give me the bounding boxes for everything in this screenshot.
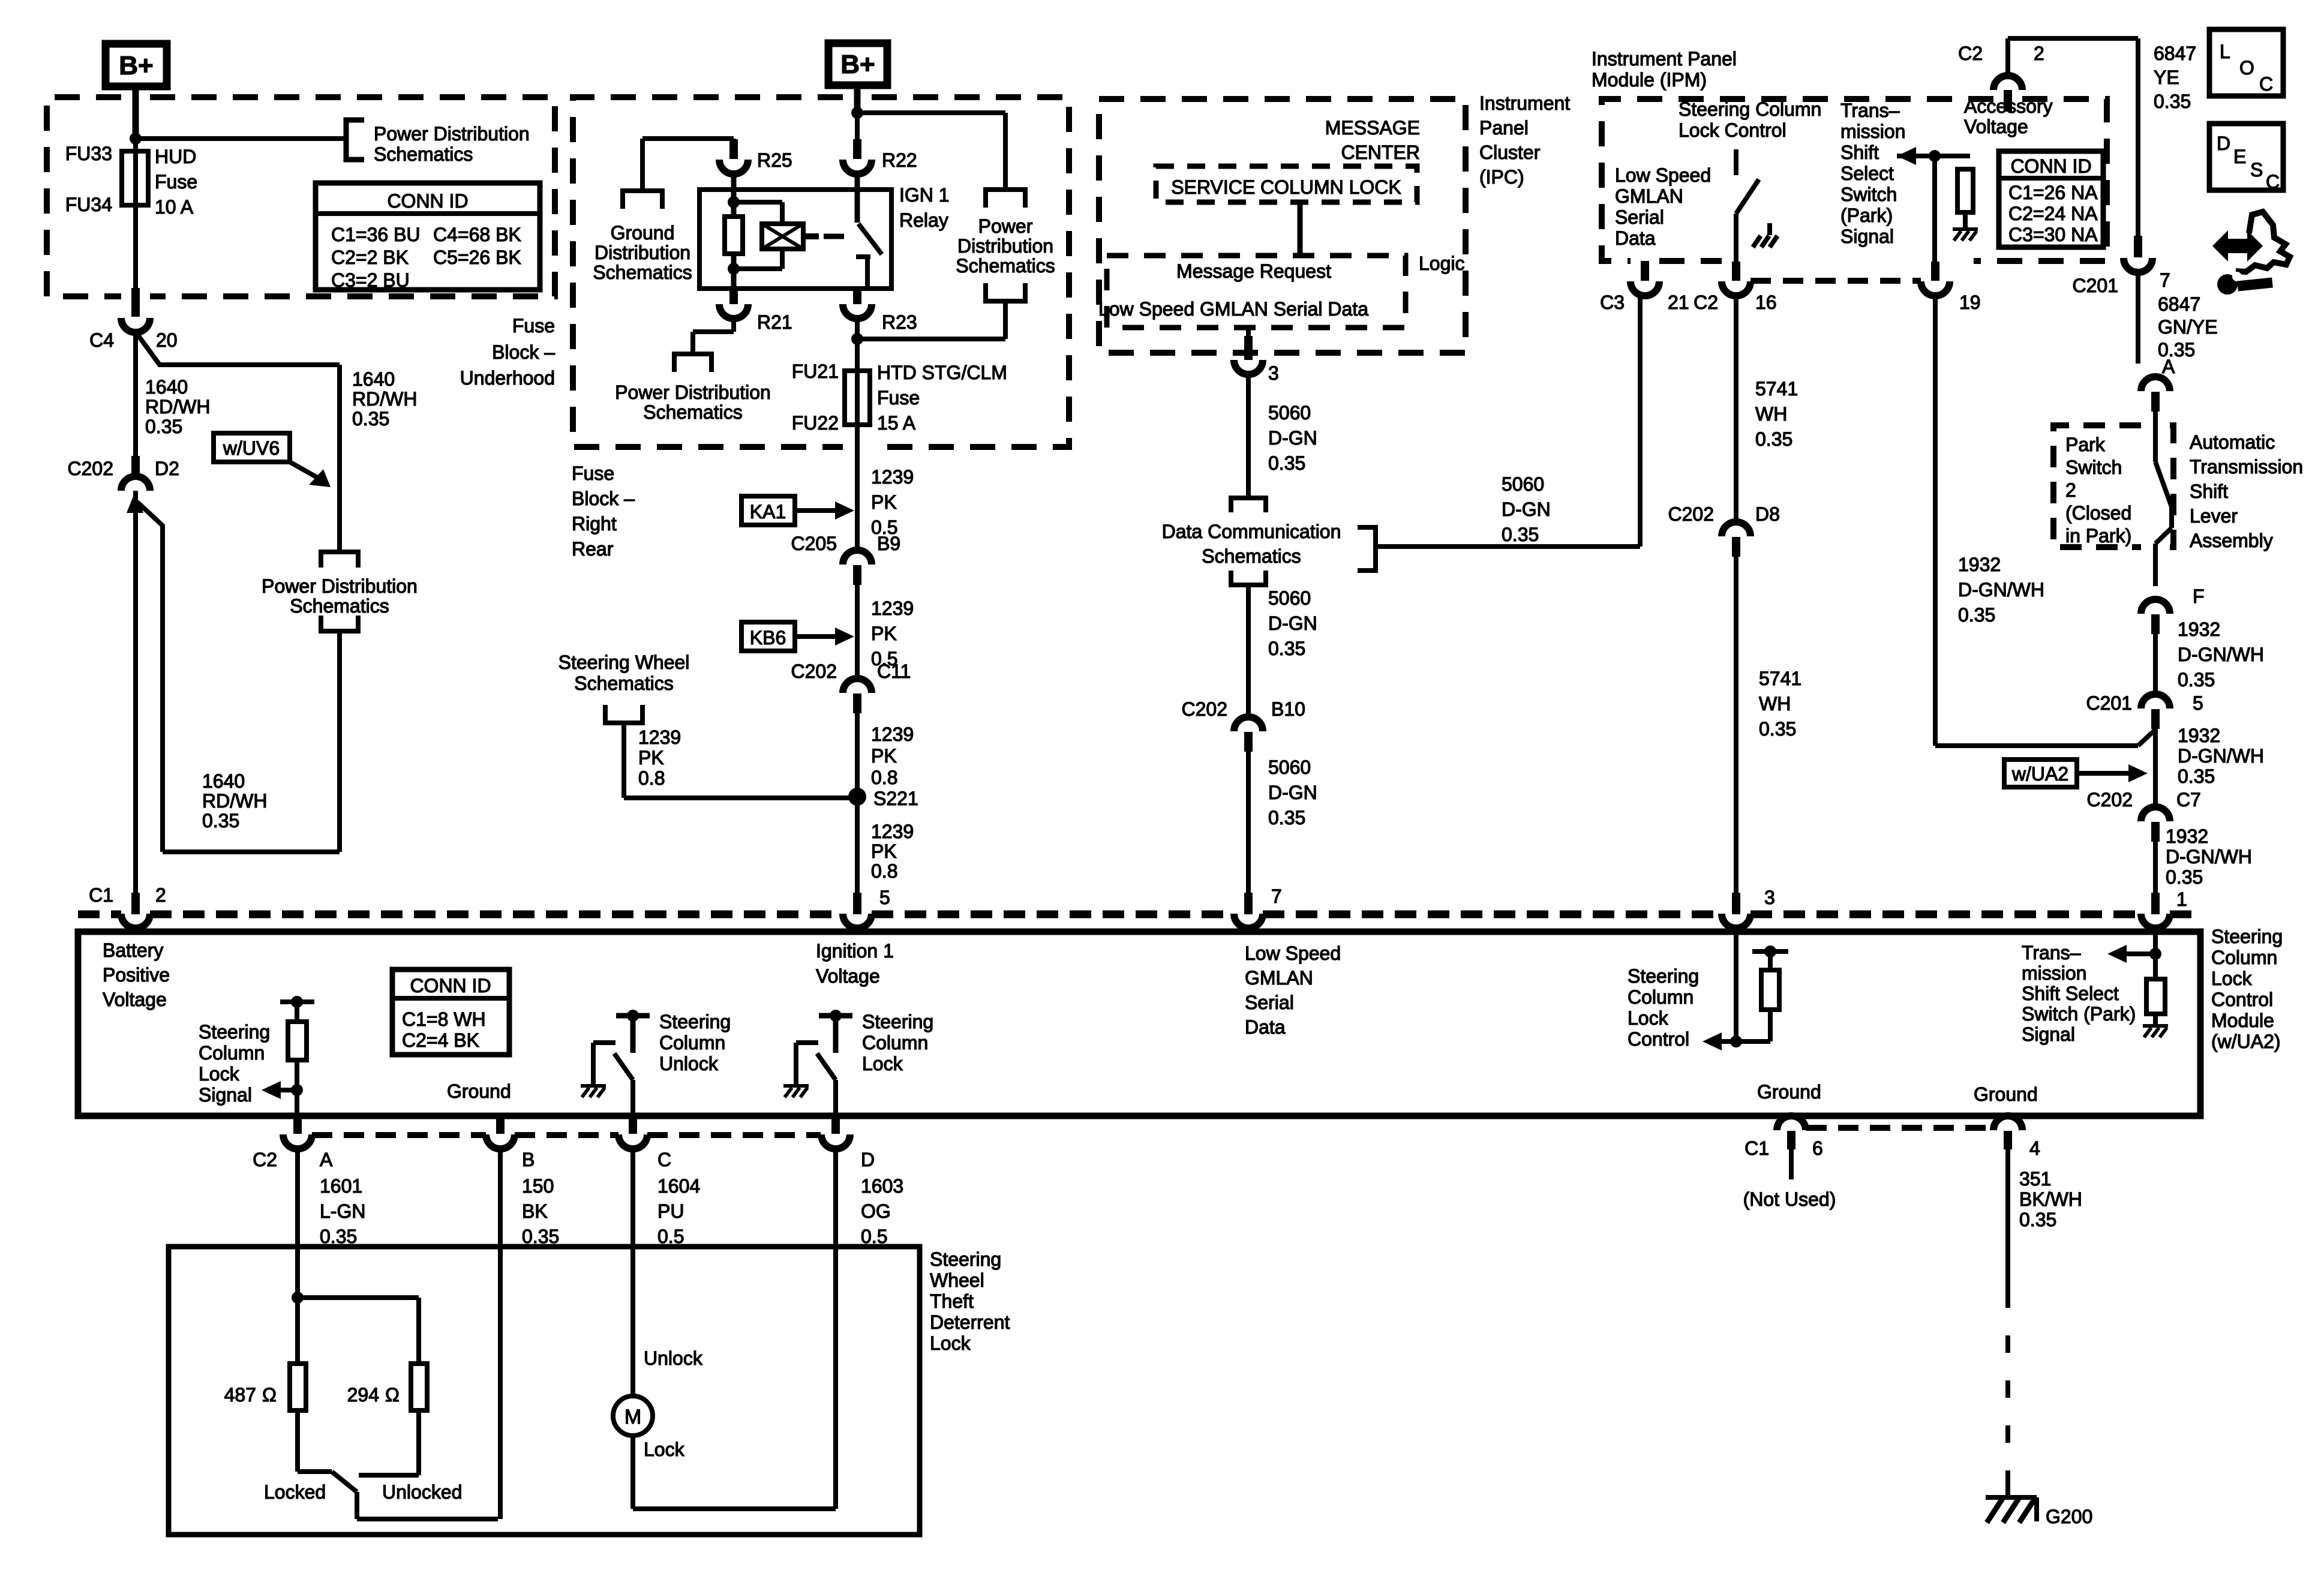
svg-text:Shift Select: Shift Select	[2022, 983, 2119, 1004]
svg-text:Underhood: Underhood	[460, 367, 555, 389]
svg-text:Power Distribution: Power Distribution	[262, 575, 418, 597]
svg-text:Ground: Ground	[1974, 1083, 2038, 1105]
svg-text:5060: 5060	[1268, 402, 1311, 424]
svg-text:Ground: Ground	[611, 222, 675, 244]
svg-text:C1=26 NA: C1=26 NA	[2008, 182, 2098, 203]
svg-text:Low Speed GMLAN Serial Data: Low Speed GMLAN Serial Data	[1098, 298, 1368, 320]
svg-text:L-GN: L-GN	[320, 1200, 365, 1222]
svg-text:Column: Column	[199, 1042, 265, 1064]
svg-text:Right: Right	[572, 513, 617, 535]
svg-text:Steering: Steering	[2211, 926, 2283, 947]
svg-text:C7: C7	[2176, 789, 2201, 810]
svg-text:C4=68 BK: C4=68 BK	[433, 224, 521, 245]
svg-text:Lock: Lock	[199, 1063, 240, 1085]
svg-text:CONN ID: CONN ID	[2010, 155, 2091, 177]
svg-text:Fuse: Fuse	[512, 315, 555, 337]
svg-text:Block –: Block –	[492, 341, 555, 363]
svg-text:2: 2	[2034, 43, 2044, 64]
svg-text:Message Request: Message Request	[1176, 260, 1331, 282]
svg-text:21: 21	[1668, 292, 1689, 313]
svg-text:Low Speed: Low Speed	[1615, 164, 1711, 186]
svg-text:Lock: Lock	[1628, 1007, 1669, 1029]
svg-text:1239: 1239	[871, 724, 914, 745]
svg-text:Logic: Logic	[1419, 253, 1465, 274]
svg-text:0.35: 0.35	[202, 810, 239, 831]
svg-text:Relay: Relay	[899, 209, 948, 231]
svg-text:Data Communication: Data Communication	[1162, 521, 1341, 542]
svg-text:(Not Used): (Not Used)	[1743, 1188, 1836, 1210]
svg-text:R23: R23	[882, 311, 917, 333]
svg-text:C2=2 BK: C2=2 BK	[331, 247, 409, 268]
svg-text:B+: B+	[119, 51, 153, 80]
svg-text:Select: Select	[1840, 163, 1894, 184]
svg-text:SERVICE COLUMN LOCK: SERVICE COLUMN LOCK	[1171, 176, 1401, 198]
svg-text:Deterrent: Deterrent	[930, 1311, 1010, 1333]
svg-text:Data: Data	[1245, 1016, 1286, 1038]
svg-text:Low Speed: Low Speed	[1245, 942, 1341, 964]
svg-text:CENTER: CENTER	[1341, 142, 1420, 163]
svg-text:E: E	[2233, 146, 2246, 167]
svg-text:Theft: Theft	[930, 1290, 974, 1312]
svg-text:D8: D8	[1755, 503, 1780, 525]
svg-text:Instrument Panel: Instrument Panel	[1592, 48, 1737, 70]
svg-text:GMLAN: GMLAN	[1615, 185, 1683, 207]
svg-text:6847: 6847	[2158, 293, 2200, 315]
svg-text:Steering Column: Steering Column	[1679, 98, 1821, 120]
svg-text:S221: S221	[873, 788, 918, 809]
svg-text:C202: C202	[1668, 503, 1715, 525]
svg-text:R25: R25	[757, 149, 792, 171]
svg-text:C: C	[2259, 73, 2273, 95]
svg-text:Switch: Switch	[2065, 457, 2122, 478]
svg-text:Transmission: Transmission	[2190, 456, 2303, 478]
svg-text:7: 7	[1271, 885, 1282, 907]
svg-text:Schematics: Schematics	[956, 255, 1055, 277]
svg-text:PU: PU	[657, 1200, 684, 1222]
svg-text:1604: 1604	[657, 1175, 700, 1197]
svg-text:Signal: Signal	[2022, 1023, 2075, 1045]
svg-text:0.35: 0.35	[145, 416, 182, 437]
svg-text:Assembly: Assembly	[2190, 530, 2273, 551]
svg-text:Schematics: Schematics	[574, 673, 673, 694]
svg-text:C202: C202	[2087, 789, 2133, 810]
svg-text:WH: WH	[1755, 403, 1787, 425]
svg-text:C2: C2	[253, 1149, 277, 1170]
svg-text:5060: 5060	[1502, 473, 1544, 495]
svg-text:Control: Control	[1628, 1028, 1689, 1050]
svg-text:Data: Data	[1615, 227, 1656, 249]
svg-text:1603: 1603	[861, 1175, 903, 1197]
svg-text:Trans–: Trans–	[1840, 100, 1900, 121]
svg-text:C2=4 BK: C2=4 BK	[402, 1029, 479, 1051]
svg-text:Ground: Ground	[447, 1080, 511, 1102]
svg-text:(Closed: (Closed	[2065, 502, 2131, 524]
svg-text:B9: B9	[877, 533, 900, 554]
svg-text:Module: Module	[2211, 1010, 2274, 1031]
svg-text:C201: C201	[2086, 692, 2133, 714]
svg-text:Instrument: Instrument	[1479, 92, 1570, 114]
svg-text:Voltage: Voltage	[103, 989, 167, 1010]
svg-text:mission: mission	[2022, 962, 2086, 984]
svg-text:1239: 1239	[871, 466, 914, 488]
svg-text:1640: 1640	[202, 770, 245, 792]
svg-text:PK: PK	[871, 745, 897, 767]
svg-text:0.35: 0.35	[1268, 452, 1305, 474]
svg-text:KB6: KB6	[750, 627, 786, 649]
svg-text:Ω: Ω	[385, 1384, 400, 1406]
svg-text:Schematics: Schematics	[1202, 545, 1301, 567]
svg-text:0.35: 0.35	[2166, 866, 2203, 888]
svg-text:Lock: Lock	[2211, 968, 2253, 989]
svg-text:D-GN: D-GN	[1502, 499, 1551, 520]
svg-text:C202: C202	[68, 458, 114, 479]
svg-text:Power Distribution: Power Distribution	[615, 382, 771, 403]
svg-text:C1=8 WH: C1=8 WH	[402, 1008, 486, 1030]
svg-text:PK: PK	[871, 623, 897, 644]
svg-text:FU34: FU34	[65, 194, 112, 215]
svg-text:Shift: Shift	[1840, 142, 1879, 163]
svg-text:Panel: Panel	[1479, 117, 1529, 139]
svg-text:Steering Wheel: Steering Wheel	[559, 652, 690, 673]
svg-text:PK: PK	[871, 840, 897, 862]
svg-text:C202: C202	[1182, 698, 1228, 720]
svg-text:RD/WH: RD/WH	[352, 388, 417, 410]
svg-text:Control: Control	[2211, 989, 2273, 1010]
svg-text:D: D	[861, 1149, 875, 1170]
svg-text:Steering: Steering	[1628, 965, 1699, 987]
svg-text:5: 5	[2193, 692, 2203, 714]
svg-text:Trans–: Trans–	[2022, 942, 2081, 963]
svg-text:D-GN/WH: D-GN/WH	[2166, 846, 2252, 867]
svg-text:0.8: 0.8	[871, 860, 897, 882]
svg-text:MESSAGE: MESSAGE	[1325, 117, 1420, 139]
svg-text:1932: 1932	[2178, 619, 2220, 640]
svg-text:C2: C2	[1694, 292, 1718, 313]
svg-text:Ignition 1: Ignition 1	[816, 940, 894, 962]
svg-text:Switch: Switch	[1840, 184, 1897, 205]
svg-text:FU33: FU33	[65, 143, 112, 164]
svg-text:B10: B10	[1271, 698, 1305, 720]
svg-text:B+: B+	[840, 50, 875, 79]
svg-text:C3=30 NA: C3=30 NA	[2008, 224, 2098, 245]
svg-text:C4: C4	[89, 329, 114, 351]
svg-text:0.35: 0.35	[1502, 524, 1539, 545]
svg-text:IGN 1: IGN 1	[899, 184, 950, 206]
svg-text:D-GN: D-GN	[1268, 782, 1317, 803]
svg-text:C1=36 BU: C1=36 BU	[331, 224, 421, 245]
svg-text:Steering: Steering	[199, 1021, 270, 1043]
svg-text:Wheel: Wheel	[930, 1269, 984, 1291]
svg-text:C: C	[2266, 171, 2280, 193]
svg-text:150: 150	[522, 1175, 554, 1197]
svg-text:R22: R22	[882, 149, 917, 171]
svg-text:Fuse: Fuse	[572, 463, 614, 484]
svg-text:Lever: Lever	[2190, 505, 2238, 527]
svg-text:6: 6	[1812, 1137, 1823, 1159]
svg-text:5741: 5741	[1759, 668, 1801, 689]
svg-text:C2: C2	[1958, 43, 1983, 64]
svg-text:YE: YE	[2154, 67, 2179, 88]
svg-text:0.35: 0.35	[1759, 718, 1796, 740]
svg-text:Column: Column	[862, 1032, 928, 1053]
svg-text:WH: WH	[1759, 693, 1791, 715]
svg-text:(IPC): (IPC)	[1479, 166, 1524, 188]
svg-text:5060: 5060	[1268, 587, 1311, 609]
svg-text:4: 4	[2029, 1137, 2040, 1159]
svg-text:0.8: 0.8	[638, 767, 665, 789]
svg-text:HTD STG/CLM: HTD STG/CLM	[877, 362, 1007, 383]
svg-text:D-GN/WH: D-GN/WH	[2178, 745, 2264, 767]
svg-text:Park: Park	[2065, 434, 2106, 455]
svg-text:in Park): in Park)	[2065, 525, 2131, 547]
svg-text:Voltage: Voltage	[816, 965, 880, 987]
svg-text:Voltage: Voltage	[1964, 116, 2028, 137]
svg-text:CONN ID: CONN ID	[387, 190, 468, 212]
svg-text:0.35: 0.35	[2154, 91, 2191, 112]
svg-text:Unlock: Unlock	[644, 1347, 703, 1369]
svg-text:C202: C202	[791, 661, 837, 682]
svg-text:Ω: Ω	[262, 1384, 277, 1406]
svg-text:487: 487	[224, 1384, 256, 1406]
svg-text:Power Distribution: Power Distribution	[374, 123, 530, 145]
svg-text:C: C	[657, 1149, 671, 1170]
svg-text:1932: 1932	[2166, 825, 2208, 847]
svg-text:19: 19	[1959, 292, 1981, 313]
svg-text:Schematics: Schematics	[643, 401, 742, 423]
svg-text:C205: C205	[791, 533, 837, 554]
svg-text:Serial: Serial	[1615, 206, 1664, 228]
svg-text:0.35: 0.35	[2178, 766, 2215, 787]
svg-text:0.35: 0.35	[2019, 1209, 2056, 1230]
svg-text:KA1: KA1	[750, 501, 786, 523]
svg-text:Cluster: Cluster	[1479, 142, 1541, 163]
svg-text:D-GN/WH: D-GN/WH	[2178, 644, 2264, 665]
svg-text:0.35: 0.35	[1268, 638, 1305, 659]
svg-text:294: 294	[347, 1384, 379, 1406]
svg-text:C1: C1	[89, 884, 113, 906]
svg-text:Distribution: Distribution	[594, 242, 690, 263]
svg-text:0.35: 0.35	[352, 408, 389, 430]
svg-text:1239: 1239	[871, 821, 914, 842]
svg-text:Schematics: Schematics	[290, 595, 389, 617]
svg-text:Schematics: Schematics	[374, 143, 473, 165]
svg-text:1239: 1239	[638, 727, 681, 748]
svg-text:D2: D2	[155, 458, 179, 479]
svg-text:Unlock: Unlock	[659, 1053, 719, 1074]
svg-text:Signal: Signal	[199, 1084, 252, 1106]
svg-text:M: M	[624, 1406, 641, 1428]
svg-text:2: 2	[155, 884, 166, 906]
svg-text:1932: 1932	[2178, 725, 2220, 746]
svg-text:Steering: Steering	[930, 1248, 1001, 1270]
svg-text:CONN ID: CONN ID	[410, 975, 491, 996]
svg-text:F: F	[2193, 586, 2205, 607]
svg-text:B: B	[522, 1149, 535, 1170]
svg-text:C3: C3	[1600, 292, 1625, 313]
svg-text:Automatic: Automatic	[2190, 431, 2275, 453]
svg-text:1601: 1601	[320, 1175, 362, 1197]
svg-text:C11: C11	[877, 661, 911, 682]
svg-text:C2=24 NA: C2=24 NA	[2008, 203, 2098, 224]
svg-text:GMLAN: GMLAN	[1245, 967, 1313, 989]
svg-text:Column: Column	[659, 1032, 725, 1053]
svg-text:A: A	[320, 1149, 333, 1170]
svg-text:Fuse: Fuse	[155, 171, 197, 193]
svg-text:Ground: Ground	[1757, 1081, 1821, 1103]
svg-text:16: 16	[1755, 292, 1777, 313]
svg-text:L: L	[2220, 41, 2230, 62]
svg-text:FU21: FU21	[792, 361, 839, 382]
svg-text:FU22: FU22	[792, 412, 839, 434]
svg-text:C5=26 BK: C5=26 BK	[433, 247, 521, 268]
svg-text:Block –: Block –	[572, 488, 635, 509]
svg-text:1640: 1640	[352, 368, 395, 390]
svg-text:(Park): (Park)	[1840, 205, 1893, 226]
svg-text:Power: Power	[978, 215, 1033, 237]
svg-text:D-GN: D-GN	[1268, 613, 1317, 634]
svg-text:5: 5	[879, 887, 890, 908]
svg-text:6847: 6847	[2154, 43, 2196, 64]
svg-text:1239: 1239	[871, 598, 914, 619]
svg-text:15 A: 15 A	[877, 412, 916, 434]
svg-text:C201: C201	[2073, 275, 2119, 296]
svg-text:BK: BK	[522, 1200, 548, 1222]
svg-text:10 A: 10 A	[155, 196, 194, 218]
svg-text:0.35: 0.35	[2178, 669, 2215, 691]
svg-text:Lock: Lock	[862, 1053, 903, 1074]
svg-text:Serial: Serial	[1245, 992, 1294, 1013]
svg-text:Locked: Locked	[264, 1481, 326, 1503]
svg-text:G200: G200	[2046, 1506, 2092, 1527]
svg-text:1: 1	[2176, 888, 2187, 910]
svg-text:1932: 1932	[1958, 554, 2001, 575]
svg-text:D-GN/WH: D-GN/WH	[1958, 579, 2044, 601]
svg-text:Column: Column	[2211, 947, 2277, 968]
svg-text:PK: PK	[638, 747, 664, 769]
svg-text:5060: 5060	[1268, 757, 1311, 778]
svg-text:R21: R21	[757, 311, 792, 333]
svg-text:OG: OG	[861, 1200, 891, 1222]
svg-text:Column: Column	[1628, 986, 1694, 1008]
svg-text:3: 3	[1764, 887, 1775, 908]
svg-text:C1: C1	[1744, 1137, 1769, 1159]
svg-text:w/UA2: w/UA2	[2011, 763, 2068, 785]
svg-text:Steering: Steering	[862, 1011, 933, 1032]
svg-text:Fuse: Fuse	[877, 387, 920, 409]
svg-text:0.35: 0.35	[1268, 807, 1305, 828]
svg-text:0.35: 0.35	[1755, 428, 1792, 450]
svg-text:Module (IPM): Module (IPM)	[1592, 69, 1707, 91]
svg-text:PK: PK	[871, 491, 897, 513]
svg-text:Lock Control: Lock Control	[1679, 119, 1786, 141]
svg-text:20: 20	[156, 329, 178, 351]
svg-text:RD/WH: RD/WH	[145, 396, 210, 418]
svg-text:3: 3	[1268, 362, 1279, 384]
svg-text:S: S	[2250, 159, 2263, 181]
svg-text:C3=2 BU: C3=2 BU	[331, 269, 410, 291]
svg-text:7: 7	[2160, 269, 2170, 291]
svg-text:Schematics: Schematics	[593, 262, 692, 283]
svg-text:Lock: Lock	[644, 1439, 685, 1460]
svg-text:A: A	[2162, 356, 2175, 377]
svg-text:Switch (Park): Switch (Park)	[2022, 1003, 2136, 1025]
svg-text:GN/YE: GN/YE	[2158, 316, 2218, 338]
svg-text:0.8: 0.8	[871, 767, 897, 788]
svg-text:1640: 1640	[145, 376, 188, 398]
svg-text:RD/WH: RD/WH	[202, 790, 267, 812]
svg-text:(w/UA2): (w/UA2)	[2211, 1031, 2281, 1052]
svg-text:Unlocked: Unlocked	[382, 1481, 462, 1503]
svg-text:Shift: Shift	[2190, 481, 2228, 502]
svg-text:351: 351	[2019, 1168, 2051, 1190]
svg-text:Signal: Signal	[1840, 226, 1894, 247]
svg-text:2: 2	[2065, 479, 2076, 501]
svg-text:HUD: HUD	[155, 146, 196, 167]
svg-text:Lock: Lock	[930, 1332, 971, 1354]
svg-text:0.35: 0.35	[1958, 604, 1995, 626]
svg-text:Positive: Positive	[103, 964, 170, 986]
svg-text:Battery: Battery	[103, 939, 163, 961]
svg-text:5741: 5741	[1755, 378, 1798, 400]
svg-text:mission: mission	[1840, 121, 1905, 142]
svg-text:Rear: Rear	[572, 538, 614, 560]
svg-text:D: D	[2217, 133, 2230, 154]
svg-text:w/UV6: w/UV6	[223, 437, 280, 459]
svg-text:D-GN: D-GN	[1268, 427, 1317, 449]
svg-text:Steering: Steering	[659, 1011, 731, 1032]
svg-text:BK/WH: BK/WH	[2019, 1188, 2082, 1210]
svg-text:Distribution: Distribution	[957, 235, 1053, 257]
svg-text:O: O	[2239, 57, 2254, 79]
